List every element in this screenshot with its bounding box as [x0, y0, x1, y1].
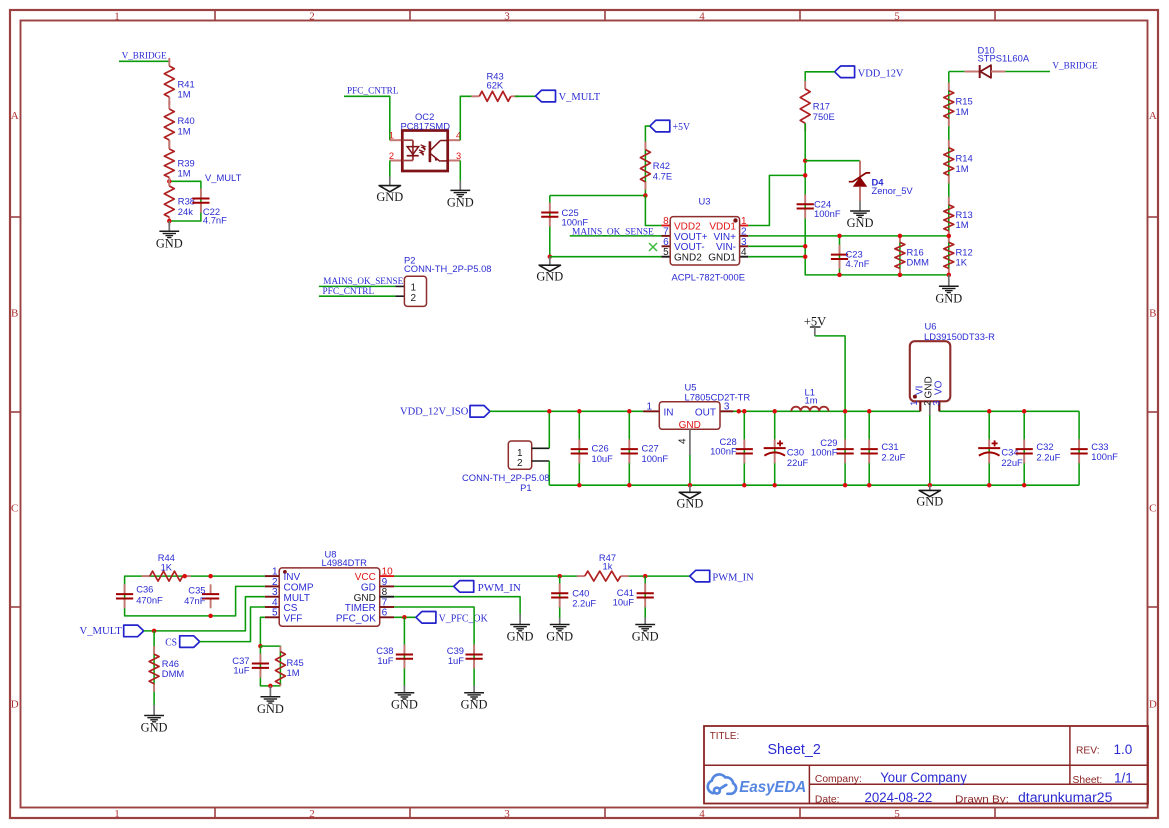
svg-text:GND: GND	[536, 270, 563, 284]
svg-text:GND: GND	[507, 630, 534, 644]
svg-text:GND1: GND1	[708, 253, 736, 264]
svg-text:VO: VO	[934, 380, 945, 395]
svg-text:GND: GND	[676, 497, 703, 511]
wire MAINS_OK_SENSE to U3 pin7	[570, 235, 662, 237]
capacitor C29	[844, 439, 846, 449]
svg-text:Sheet:: Sheet:	[1073, 775, 1103, 786]
svg-text:V_MULT: V_MULT	[205, 172, 242, 183]
svg-text:1M: 1M	[956, 163, 969, 174]
resistor R16	[899, 236, 901, 275]
P1 pin leads	[532, 447, 550, 449]
capacitor C37	[260, 646, 280, 686]
junction dots on VDD1/gnd column	[803, 158, 808, 163]
svg-text:A: A	[11, 110, 19, 122]
svg-text:1m: 1m	[805, 395, 818, 406]
svg-text:VIN+: VIN+	[713, 232, 736, 243]
wire U3 pin2 to divider	[748, 235, 949, 237]
svg-text:2: 2	[741, 226, 747, 237]
wire U3 pin3 to gnd rail	[748, 245, 805, 247]
wire +5V down to R42 and junction	[645, 126, 649, 195]
OC2 LED symbol	[402, 139, 413, 141]
wire R47 to PWM_IN flag	[629, 575, 690, 577]
wire column C28	[743, 411, 745, 485]
capacitor C34	[988, 439, 990, 448]
net flag PWM_IN (pin9)	[454, 581, 474, 593]
svg-text:Zenor_5V: Zenor_5V	[872, 185, 914, 196]
ground below U6 column (triangle)	[929, 485, 931, 490]
svg-text:3: 3	[741, 237, 747, 248]
svg-text:+5V: +5V	[673, 122, 691, 133]
opto pin4 lead	[448, 139, 461, 141]
junctions C34	[987, 409, 992, 414]
svg-text:3: 3	[931, 401, 941, 406]
svg-text:1M: 1M	[956, 219, 969, 230]
svg-text:4: 4	[678, 438, 689, 444]
junction at R38 bottom	[167, 219, 172, 224]
ground below pin8 (earth)	[510, 624, 530, 626]
svg-text:2: 2	[309, 808, 315, 820]
svg-text:GND: GND	[632, 630, 659, 644]
svg-text:B: B	[11, 308, 18, 320]
svg-text:CONN-TH_2P-P5.08: CONN-TH_2P-P5.08	[462, 472, 550, 483]
capacitor C23	[839, 236, 841, 275]
wire P1 pin1 to rail	[548, 411, 550, 448]
svg-text:R17: R17	[813, 101, 830, 112]
junction R13/R12 sense node	[947, 234, 952, 239]
svg-text:GND: GND	[257, 702, 284, 716]
opto pin3 lead	[448, 160, 461, 162]
svg-text:24k: 24k	[178, 206, 193, 217]
svg-text:Sheet_2: Sheet_2	[768, 742, 821, 758]
ground below C38 (earth)	[403, 686, 405, 693]
wire junction to zener D4	[805, 160, 860, 162]
wire column C31	[868, 411, 870, 485]
svg-text:Your Company: Your Company	[880, 770, 967, 785]
capacitor C35	[210, 584, 212, 594]
svg-text:V_BRIDGE: V_BRIDGE	[122, 51, 167, 62]
wire U8 pin1 net (INV)	[125, 576, 265, 616]
svg-text:100nF: 100nF	[642, 453, 669, 464]
ruler ticks top	[214, 10, 216, 21]
junction C37 top	[258, 644, 263, 649]
resistor R38	[168, 178, 170, 186]
wire VCC pin10 net	[394, 575, 577, 577]
svg-text:Drawn By:: Drawn By:	[955, 795, 1009, 806]
svg-text:REV:: REV:	[1076, 745, 1100, 756]
inductor L1	[791, 407, 828, 412]
svg-text:1uF: 1uF	[377, 655, 393, 666]
wire column C26	[578, 411, 580, 485]
svg-text:1M: 1M	[956, 106, 969, 117]
svg-text:3: 3	[724, 402, 730, 413]
node V_MULT junction	[167, 179, 172, 184]
svg-text:100nF: 100nF	[1091, 451, 1118, 462]
svg-text:1M: 1M	[287, 667, 300, 678]
capacitor C33 (rail end)	[1078, 439, 1080, 449]
svg-text:GND: GND	[916, 495, 943, 509]
junctions C31	[867, 409, 872, 414]
extra junction at U5 out	[737, 409, 742, 414]
wire C25 top to R42 junction	[550, 195, 646, 197]
ground below C25 (triangle)	[549, 257, 551, 266]
svg-text:Date:: Date:	[815, 795, 840, 806]
junction U6 gnd	[928, 483, 933, 488]
connector P2 box	[404, 276, 426, 306]
svg-text:DMM: DMM	[907, 257, 930, 268]
svg-text:4.7nF: 4.7nF	[203, 215, 227, 226]
wire PFC_CNTRL to OC2 pin1	[344, 96, 390, 140]
wire column C34	[988, 411, 990, 485]
junction R12 bottom	[947, 273, 952, 278]
U3 pin leads	[662, 225, 671, 227]
wire V_BRIDGE divider column (right)	[948, 72, 950, 275]
junctions C29	[843, 409, 848, 414]
capacitor C31	[868, 439, 870, 449]
svg-text:1K: 1K	[956, 257, 968, 268]
wire V_MULT node to C22	[169, 181, 201, 221]
resistor R46	[153, 631, 155, 705]
title block outer box	[704, 726, 1148, 804]
svg-text:2: 2	[517, 458, 523, 469]
capacitor C22	[200, 189, 202, 199]
net flag VDD_12V	[835, 66, 855, 78]
svg-text:4: 4	[699, 11, 705, 23]
OC2 phototransistor	[429, 141, 432, 162]
svg-text:2.2uF: 2.2uF	[572, 598, 596, 609]
svg-text:7: 7	[663, 226, 669, 237]
no-connect X on U3 pin6	[649, 243, 657, 251]
junction U5 gnd	[688, 483, 693, 488]
capacitor C24	[804, 194, 806, 204]
svg-text:100nF: 100nF	[811, 447, 838, 458]
svg-text:IN: IN	[664, 407, 674, 418]
wire U3 pin1 to VDD1 node	[748, 175, 805, 225]
ground below C39 (earth)	[473, 686, 475, 693]
junction V_MULT/R46	[152, 629, 157, 634]
svg-text:TITLE:: TITLE:	[710, 731, 739, 742]
wire TIMER pin7 to C39	[394, 607, 474, 644]
junctions C35	[208, 574, 213, 579]
svg-text:DMM: DMM	[162, 668, 185, 679]
U6 pin2 GND down to rail	[929, 415, 931, 485]
diode D10	[965, 71, 980, 73]
junction C40 top	[557, 574, 562, 579]
svg-text:GND: GND	[447, 195, 474, 209]
wire PFC_OK pin6 to flag	[394, 616, 416, 618]
op-amp U3 box	[670, 217, 739, 265]
svg-text:10uF: 10uF	[613, 597, 635, 608]
svg-text:GND: GND	[935, 291, 962, 305]
svg-text:C: C	[11, 503, 18, 515]
svg-text:1/1: 1/1	[1114, 770, 1133, 785]
junctions C32	[1022, 409, 1027, 414]
zener diode D4	[859, 161, 861, 177]
svg-text:3: 3	[456, 151, 461, 161]
junction C41 top	[643, 574, 648, 579]
svg-text:P1: P1	[520, 482, 531, 493]
svg-text:1K: 1K	[161, 561, 173, 572]
capacitor C39	[473, 644, 475, 686]
wire C33 column	[1078, 411, 1080, 485]
wire R17 to junction	[804, 123, 806, 161]
svg-text:100nF: 100nF	[814, 208, 841, 219]
ground below R38 (earth)	[168, 221, 170, 231]
wire MAINS_OK_SENSE to P2 pin1	[319, 285, 395, 287]
svg-text:D: D	[1149, 699, 1157, 711]
svg-text:B: B	[1149, 308, 1156, 320]
net flag VDD_12V_ISO (arrow)	[470, 406, 490, 418]
wire U3 pin4 to gnd rail	[748, 256, 805, 258]
svg-text:VDD2: VDD2	[674, 221, 701, 232]
ground below OC2 pin2 (triangle)	[379, 186, 400, 192]
wire C37/R45 top link	[260, 646, 280, 686]
capacitor C26	[578, 439, 580, 449]
wire main 12V rail	[490, 410, 920, 412]
capacitor C41	[644, 576, 646, 617]
svg-text:5: 5	[894, 11, 900, 23]
wire OC2 pin2 to ground	[389, 161, 391, 177]
svg-text:62K: 62K	[487, 79, 504, 90]
svg-text:750E: 750E	[813, 111, 835, 122]
wire OC2 pin4 to R43	[460, 96, 475, 140]
wire column C27	[628, 411, 630, 485]
wire 3V3 rail (right of U6)	[939, 410, 1079, 412]
wire R43 to V_MULT flag	[515, 95, 536, 97]
svg-text:L4984DTR: L4984DTR	[322, 557, 368, 568]
svg-text:1M: 1M	[178, 126, 191, 137]
junctions C28	[742, 409, 747, 414]
svg-text:A: A	[1149, 110, 1157, 122]
ground below C37 (earth)	[269, 686, 271, 697]
net flag +5V (near R42)	[650, 120, 670, 132]
ruler ticks right	[1148, 216, 1159, 218]
svg-text:1.0: 1.0	[1114, 742, 1133, 757]
wire +5V to rail	[815, 336, 845, 411]
EasyEDA logo cloud	[708, 774, 736, 793]
junctions R16	[898, 234, 903, 239]
svg-text:PFC_CNTRL: PFC_CNTRL	[323, 286, 375, 297]
svg-text:V_BRIDGE: V_BRIDGE	[1052, 60, 1098, 71]
junction pin6/C38	[402, 615, 407, 620]
wire GND pin8 down	[394, 597, 520, 614]
resistor R41	[168, 58, 170, 66]
svg-text:1uF: 1uF	[448, 655, 464, 666]
svg-text:4.7E: 4.7E	[653, 171, 672, 182]
wire P1 pin2 to gnd rail	[548, 461, 550, 485]
svg-text:2.2uF: 2.2uF	[881, 452, 905, 463]
junction C25 bottom	[548, 254, 553, 259]
svg-text:22uF: 22uF	[787, 457, 809, 468]
junction C37/R45 bottom	[268, 684, 273, 689]
wire V_MULT to MULT pin	[144, 597, 265, 631]
wire CS to pin4	[200, 607, 265, 642]
svg-text:2: 2	[309, 11, 315, 23]
svg-text:10uF: 10uF	[592, 453, 614, 464]
svg-text:22uF: 22uF	[1001, 457, 1023, 468]
svg-text:PC817SMD: PC817SMD	[401, 121, 451, 132]
resistor R40	[168, 101, 170, 109]
svg-text:VDD_12V_ISO: VDD_12V_ISO	[400, 407, 469, 418]
wire D10 to V_BRIDGE label	[1005, 71, 1050, 73]
svg-text:100nF: 100nF	[710, 446, 737, 457]
svg-text:5: 5	[663, 247, 669, 258]
U3 pin1 marker dot	[733, 218, 737, 222]
ground below C40 (earth)	[559, 618, 561, 625]
U5 pin1 lead	[643, 410, 659, 412]
svg-text:GND: GND	[376, 190, 403, 204]
wire column C29	[844, 411, 846, 485]
svg-text:GND: GND	[546, 630, 573, 644]
junctions C27	[627, 409, 632, 414]
resistor R14	[948, 140, 950, 148]
svg-text:VDD1: VDD1	[709, 221, 736, 232]
capacitor C32	[1023, 439, 1025, 449]
capacitor C25	[549, 203, 551, 213]
ground below D4 (earth)	[859, 201, 861, 211]
svg-text:1: 1	[389, 131, 394, 141]
connector P1 box	[508, 441, 531, 469]
capacitor C27	[628, 439, 630, 449]
resistor R45	[279, 646, 281, 651]
U5 pin4 (GND) down to rail	[689, 455, 691, 485]
svg-text:6: 6	[663, 237, 669, 248]
title block dividers	[704, 764, 1148, 766]
regulator U6 box	[910, 341, 951, 401]
svg-text:C: C	[1149, 503, 1156, 515]
svg-text:6: 6	[382, 608, 388, 619]
svg-text:CS: CS	[165, 637, 177, 648]
wire C25 bottom to U3 pin5	[550, 256, 662, 258]
svg-text:C36: C36	[136, 584, 153, 595]
svg-text:LD39150DT33-R: LD39150DT33-R	[924, 331, 995, 342]
svg-text:1: 1	[517, 448, 523, 459]
wire bottom ground rail	[549, 484, 1079, 486]
U5 pin3 lead	[720, 410, 733, 412]
resistor R12	[948, 234, 950, 242]
resistor R42	[644, 142, 646, 150]
junction R42 bottom	[643, 193, 648, 198]
capacitor C30	[774, 439, 776, 448]
svg-text:CONN-TH_2P-P5.08: CONN-TH_2P-P5.08	[404, 263, 492, 274]
capacitor C28	[743, 439, 745, 449]
svg-text:PFC_CNTRL: PFC_CNTRL	[347, 86, 399, 97]
OC2 light arrows	[421, 145, 426, 149]
resistor R47	[577, 575, 585, 577]
svg-text:V_PFC_OK: V_PFC_OK	[439, 614, 489, 625]
svg-text:STPS1L60A: STPS1L60A	[978, 52, 1030, 63]
svg-text:3: 3	[504, 11, 510, 23]
wire V_BRIDGE to R41	[119, 60, 169, 62]
svg-text:L7805CD2T-TR: L7805CD2T-TR	[685, 391, 751, 402]
U6 pin1 marker dot	[913, 395, 917, 399]
svg-text:GND: GND	[461, 698, 488, 712]
ruler ticks bottom	[214, 808, 216, 819]
opto pin2 lead	[390, 160, 403, 162]
svg-text:U3: U3	[699, 196, 711, 207]
capacitor C36	[124, 584, 126, 594]
svg-text:D: D	[11, 699, 19, 711]
svg-text:ACPL-782T-000E: ACPL-782T-000E	[672, 272, 745, 283]
resistor R15	[948, 83, 950, 91]
svg-text:1: 1	[114, 808, 120, 820]
svg-text:4: 4	[699, 808, 705, 820]
ground below R46 (earth)	[153, 705, 155, 716]
svg-text:VFF: VFF	[284, 613, 303, 624]
svg-text:2: 2	[389, 151, 394, 161]
wire VFF pin5 to C37/R45	[260, 617, 264, 646]
wire column C32	[1023, 411, 1025, 485]
capacitor C38	[403, 617, 405, 685]
svg-text:1: 1	[647, 402, 653, 413]
svg-text:47nF: 47nF	[184, 595, 206, 606]
resistor R13	[948, 197, 950, 205]
net flag CS	[180, 636, 200, 648]
svg-text:1: 1	[114, 11, 120, 23]
ground below C41 (earth)	[644, 618, 646, 625]
op-to pin1 lead	[390, 139, 403, 141]
svg-text:V_MULT: V_MULT	[80, 626, 123, 637]
ground below OC2 pin3 (earth)	[450, 189, 470, 191]
resistor R44	[142, 575, 150, 577]
svg-text:V_MULT: V_MULT	[559, 92, 601, 103]
svg-text:2.2uF: 2.2uF	[1036, 452, 1060, 463]
svg-text:8: 8	[663, 216, 669, 227]
ground below R12 (earth)	[948, 275, 950, 286]
svg-text:VDD_12V: VDD_12V	[858, 68, 904, 79]
svg-text:GND: GND	[391, 698, 418, 712]
svg-text:PFC_OK: PFC_OK	[336, 613, 376, 624]
U8 pin1 marker dot	[283, 570, 287, 574]
svg-text:1k: 1k	[603, 560, 613, 571]
svg-text:GND2: GND2	[674, 253, 702, 264]
wire PFC_CNTRL to P2 pin2	[319, 295, 395, 297]
wire junction down to U3 pin8	[645, 196, 661, 226]
svg-text:GND: GND	[847, 216, 874, 230]
junctions C30	[772, 409, 777, 414]
svg-text:Company:: Company:	[815, 774, 862, 785]
junctions C23	[837, 234, 842, 239]
svg-text:GND: GND	[141, 721, 168, 735]
svg-text:OUT: OUT	[695, 407, 716, 418]
resistor R17	[804, 81, 806, 89]
regulator U5 box	[659, 402, 720, 430]
svg-text:1M: 1M	[178, 89, 191, 100]
svg-text:470nF: 470nF	[136, 595, 163, 606]
svg-text:VOUT-: VOUT-	[674, 242, 705, 253]
resistor R43	[471, 95, 479, 97]
svg-text:1: 1	[741, 216, 747, 227]
wire VDD1 column with C24	[805, 161, 949, 275]
junction P1/rail	[547, 409, 552, 414]
wire column C30	[774, 411, 776, 485]
optocoupler OC2 box	[402, 131, 447, 172]
net flag V_MULT (top)	[536, 90, 556, 102]
wire VDD_12V to R17	[805, 72, 834, 89]
U6 pin leads	[919, 401, 921, 411]
svg-text:VOUT+: VOUT+	[674, 232, 708, 243]
svg-text:EasyEDA: EasyEDA	[739, 779, 806, 796]
svg-text:GND: GND	[156, 236, 183, 250]
wire GD pin9 to PWM_IN flag	[394, 585, 454, 587]
svg-text:1: 1	[909, 401, 919, 406]
svg-text:dtarunkumar25: dtarunkumar25	[1018, 790, 1112, 805]
svg-text:1uF: 1uF	[233, 665, 249, 676]
svg-text:1M: 1M	[178, 168, 191, 179]
controller U8 box	[279, 568, 380, 626]
U8 pin leads	[265, 575, 279, 577]
svg-text:5: 5	[894, 808, 900, 820]
junction R44 right	[182, 574, 187, 579]
